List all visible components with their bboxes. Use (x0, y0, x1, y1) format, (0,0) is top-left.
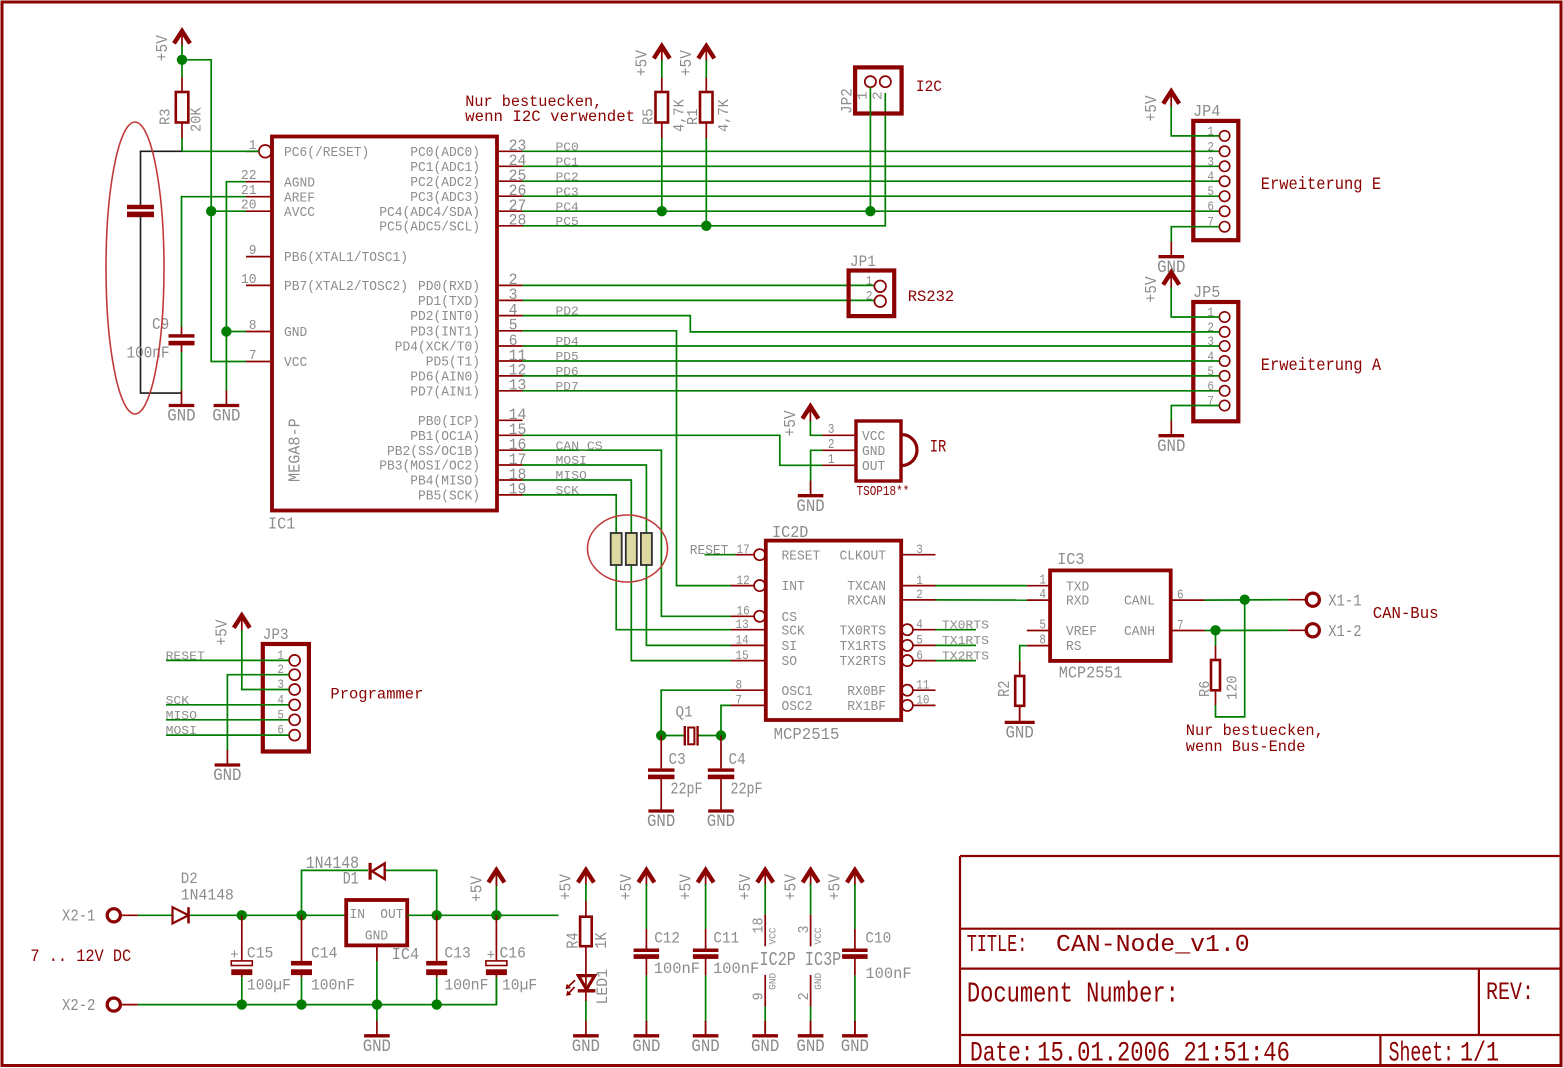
svg-text:Date:: Date: (970, 1039, 1034, 1068)
terminal X1-2 (1288, 623, 1361, 642)
IC3 pin 5 VREF (1027, 618, 1097, 640)
svg-text:GND: GND (862, 445, 885, 460)
svg-text:PC2: PC2 (556, 170, 579, 184)
IC1 pin 10 PB7(XTAL2/TOSC2) (241, 273, 408, 295)
svg-text:Sheet:: Sheet: (1389, 1039, 1454, 1068)
svg-text:22pF: 22pF (671, 780, 703, 799)
wire black loop lower (141, 216, 182, 393)
IC3 pin 1 TXD (1027, 574, 1089, 596)
wire IR GND (811, 450, 823, 491)
ground GND (C12) (632, 1021, 660, 1057)
ground GND (C9) (167, 391, 195, 427)
connector JP5 (Erweiterung A) (1193, 283, 1238, 421)
IC2D pin 1 TXCAN (847, 573, 935, 595)
svg-text:100nF: 100nF (127, 344, 170, 363)
wire PC0 net (523, 150, 1220, 152)
junction AVCC (206, 206, 216, 216)
junction R5 (657, 206, 667, 216)
svg-text:OUT: OUT (862, 460, 885, 475)
wire JP2 pin1 to PC4 (869, 87, 871, 211)
svg-text:4: 4 (916, 617, 923, 632)
wire D1 bypass left (302, 870, 369, 915)
svg-text:GND: GND (796, 1038, 824, 1057)
svg-text:GND: GND (1157, 438, 1185, 457)
wire D2 to IC4 IN rail (190, 914, 346, 916)
svg-text:PC3: PC3 (556, 185, 579, 199)
IC1 pin 14 PB0(ICP) (418, 406, 526, 430)
svg-text:PC5: PC5 (556, 215, 579, 229)
svg-text:MCP2551: MCP2551 (1059, 664, 1123, 683)
svg-text:1: 1 (856, 91, 872, 100)
capacitor C4 (708, 736, 763, 799)
IC1 pin 23 PC0(ADC0) (410, 137, 526, 161)
svg-text:3: 3 (828, 423, 835, 438)
wire RXCAN to RXD (936, 599, 1027, 601)
svg-text:VREF: VREF (1066, 625, 1097, 640)
svg-text:2: 2 (1207, 139, 1214, 154)
supply +5V (JP4) (1142, 91, 1179, 121)
wire LED1 to GND (585, 991, 587, 1001)
supply +5V (IC4 out) (467, 870, 504, 915)
svg-text:OUT: OUT (380, 908, 403, 923)
svg-text:2: 2 (866, 289, 873, 304)
IC2D pin 2 RXCAN (847, 587, 935, 609)
svg-text:GND: GND (572, 1038, 600, 1057)
svg-text:MOSI: MOSI (556, 454, 587, 468)
svg-text:+5V: +5V (1142, 95, 1161, 121)
svg-text:SCK: SCK (556, 484, 580, 498)
IC1 pin 22 AGND (241, 169, 315, 191)
svg-text:1K: 1K (592, 932, 611, 949)
svg-text:4,7K: 4,7K (717, 99, 733, 132)
svg-text:9: 9 (249, 244, 257, 259)
svg-text:PB2(SS/OC1B): PB2(SS/OC1B) (387, 445, 480, 460)
svg-text:GND: GND (796, 498, 824, 517)
ground GND (IC1) (212, 391, 240, 427)
wire JP5 pin7 to GND (1171, 406, 1219, 422)
svg-text:R2: R2 (995, 681, 1014, 697)
wire PD1 to JP1 (523, 299, 875, 301)
terminal X2-1 (62, 908, 138, 927)
svg-text:GND: GND (691, 1038, 719, 1057)
svg-text:1: 1 (866, 274, 873, 289)
svg-text:MISO: MISO (166, 709, 197, 723)
svg-text:PD7: PD7 (556, 380, 579, 394)
svg-text:PB5(SCK): PB5(SCK) (418, 490, 480, 505)
svg-text:PC6(/RESET): PC6(/RESET) (284, 146, 369, 161)
svg-text:PD6: PD6 (556, 365, 579, 379)
svg-text:JP1: JP1 (850, 253, 876, 271)
wire R6 to CANL (1216, 600, 1245, 717)
svg-text:MISO: MISO (556, 469, 587, 483)
IC1 pin 27 PC4(ADC4/SDA) (379, 197, 526, 221)
IC2D pin 8 OSC1 (731, 677, 813, 699)
svg-text:RESET: RESET (690, 544, 729, 559)
svg-text:GND: GND (632, 1038, 660, 1057)
svg-text:20K: 20K (190, 107, 206, 132)
wire PC1 net (523, 165, 1220, 167)
wire +5V to IR VCC (810, 421, 822, 435)
svg-text:TITLE:: TITLE: (967, 932, 1028, 959)
svg-text:+5V: +5V (467, 876, 486, 902)
svg-text:IC3: IC3 (1057, 550, 1084, 569)
svg-text:TSOP18**: TSOP18** (857, 485, 910, 500)
svg-text:8: 8 (736, 677, 743, 692)
wire R1 to bus (705, 138, 707, 226)
svg-text:IC4: IC4 (392, 945, 419, 964)
svg-text:LED1: LED1 (594, 969, 612, 1005)
svg-text:RXCAN: RXCAN (847, 595, 886, 610)
supply +5V (R5) (633, 46, 670, 76)
wire OSC1 to crystal (661, 690, 731, 735)
svg-text:TX1RTS: TX1RTS (840, 640, 887, 655)
wire black reset-cap loop (141, 151, 183, 205)
power symbol IC3P (781, 870, 841, 1036)
resistor R5 4,7K (641, 60, 688, 138)
svg-text:13: 13 (736, 617, 749, 632)
svg-text:IC3P: IC3P (805, 949, 841, 971)
wire TX2RTS stub (936, 660, 977, 662)
svg-text:+5V: +5V (633, 50, 652, 76)
svg-text:I2C: I2C (916, 78, 942, 96)
svg-text:+5V: +5V (557, 874, 576, 900)
IC1 pin 24 PC1(ADC1) (410, 152, 526, 176)
svg-text:R3: R3 (159, 109, 175, 125)
wire PC3 net (523, 195, 1220, 197)
wire PD5 net (523, 360, 1220, 362)
capacitor C11 100nF (693, 884, 759, 978)
svg-text:MOSI: MOSI (166, 724, 197, 738)
wire RESET net label (IC2D) (705, 554, 736, 556)
annotation red ellipse (reset caps) (106, 122, 164, 414)
svg-text:R1: R1 (686, 109, 702, 125)
IC3 pin 4 RXD (1027, 588, 1089, 610)
svg-text:10: 10 (916, 693, 929, 708)
svg-text:+: + (230, 948, 238, 964)
svg-text:PC4: PC4 (556, 200, 579, 214)
svg-text:INT: INT (782, 580, 805, 595)
svg-text:VCC: VCC (284, 356, 307, 371)
svg-text:100nF: 100nF (444, 977, 488, 995)
IC2D pin 16 CS (731, 604, 797, 626)
wire +5V to JP4 pin1 (1171, 106, 1219, 136)
capacitor C9 (127, 315, 195, 363)
svg-text:PD7(AIN1): PD7(AIN1) (410, 385, 480, 400)
IC2D pin 15 SO (731, 648, 797, 670)
svg-text:2: 2 (797, 992, 813, 1000)
svg-text:MEGA8-P: MEGA8-P (286, 418, 305, 482)
wire C10 to GND (854, 975, 856, 1021)
svg-text:120: 120 (1226, 675, 1242, 700)
svg-text:3: 3 (797, 926, 813, 934)
IC3 pin 6 CANL (1124, 589, 1205, 610)
svg-text:PD5(T1): PD5(T1) (426, 356, 480, 371)
svg-text:PC0(ADC0): PC0(ADC0) (410, 146, 480, 161)
svg-text:Programmer: Programmer (330, 685, 423, 703)
svg-text:PC2(ADC2): PC2(ADC2) (410, 176, 480, 191)
wire OSC2 to crystal (721, 705, 731, 735)
svg-text:100µF: 100µF (247, 977, 291, 995)
ground GND (C4) (707, 796, 735, 832)
IC2D pin 5 TX1RTS (840, 633, 936, 655)
svg-text:C16: C16 (500, 945, 526, 963)
ground GND (JP3) (213, 750, 241, 786)
svg-text:11: 11 (916, 677, 929, 692)
svg-text:RS: RS (1066, 640, 1082, 655)
IC IC1 MEGA8-P body (272, 137, 497, 511)
wire MISO to JP3 pin5 (166, 719, 289, 721)
wire JP4 pin7 to GND (1171, 227, 1219, 242)
svg-text:+5V: +5V (153, 35, 172, 61)
svg-text:1/1: 1/1 (1460, 1039, 1499, 1068)
svg-text:2: 2 (916, 587, 923, 602)
capacitor C13 100nF (426, 915, 488, 1004)
svg-text:7 .. 12V DC: 7 .. 12V DC (30, 948, 131, 967)
wire MOSI to JP3 pin6 (166, 734, 289, 736)
LED LED1 (566, 969, 612, 1005)
wire C9 to GND (181, 352, 183, 391)
svg-text:IC1: IC1 (268, 515, 295, 534)
wire X2-1 to D2 (138, 914, 172, 916)
supply +5V (C10) (826, 870, 863, 900)
svg-text:CLKOUT: CLKOUT (840, 549, 887, 564)
svg-text:X2-1: X2-1 (62, 908, 95, 927)
IC IC3 MCP2551 body (1050, 570, 1171, 661)
svg-text:PD4: PD4 (556, 335, 579, 349)
svg-text:MCP2515: MCP2515 (774, 725, 840, 744)
IC1 pin 6 PD4(XCK/T0) (395, 332, 523, 356)
svg-text:REV:: REV: (1486, 978, 1534, 1007)
junction GND pin8 (221, 326, 231, 336)
IR receiver module body (856, 421, 917, 481)
supply +5V (C11) (676, 870, 713, 900)
svg-text:22pF: 22pF (731, 780, 763, 799)
svg-text:14: 14 (736, 633, 749, 648)
svg-text:GND: GND (647, 813, 675, 832)
svg-text:7: 7 (736, 693, 743, 708)
svg-text:PC4(ADC4/SDA): PC4(ADC4/SDA) (379, 206, 480, 221)
svg-text:100nF: 100nF (654, 960, 700, 978)
svg-text:5: 5 (1207, 184, 1214, 199)
svg-text:JP3: JP3 (263, 626, 289, 644)
svg-text:28: 28 (509, 212, 527, 230)
wire D1 bypass right (386, 870, 437, 915)
IC1 pin 3 PD1(TXD) (418, 286, 523, 310)
connector JP4 (Erweiterung E) (1193, 102, 1238, 240)
wire IC4 GND down (376, 945, 378, 961)
svg-text:PD6(AIN0): PD6(AIN0) (410, 371, 480, 386)
IC2D pin 13 SCK (731, 617, 805, 639)
annotation red ellipse (SPI jumpers) (588, 515, 668, 582)
IC2D pin 4 TX0RTS (840, 617, 936, 639)
svg-text:+5V: +5V (781, 874, 800, 900)
title block frame (960, 856, 1560, 1064)
svg-text:SO: SO (782, 655, 798, 670)
svg-text:CANL: CANL (1124, 595, 1155, 610)
ground GND (IR) (796, 481, 824, 517)
svg-text:GND: GND (284, 326, 307, 341)
wire TX0RTS stub (936, 629, 977, 631)
svg-text:PD3(INT1): PD3(INT1) (410, 325, 480, 340)
junction R1 (701, 221, 711, 231)
svg-text:GND: GND (365, 930, 388, 945)
svg-text:wenn I2C verwendet: wenn I2C verwendet (465, 108, 635, 126)
capacitor C15 100uF polarized (230, 915, 291, 1004)
IC2D pin 10 RX1BF (847, 693, 935, 715)
resistor R3 (159, 78, 206, 139)
svg-text:PB0(ICP): PB0(ICP) (418, 415, 480, 430)
IC1 pin 11 PD5(T1) (426, 347, 527, 371)
IC1 pin 21 AREF (241, 184, 315, 206)
ground GND (LED1) (572, 1021, 600, 1057)
IC1 pin 17 PB3(MOSI/OC2) (379, 451, 526, 475)
svg-text:13: 13 (509, 377, 527, 395)
svg-text:D2: D2 (181, 870, 198, 888)
IC1 pin 19 PB5(SCK) (418, 481, 526, 505)
wire R3 to pin1 net (181, 138, 183, 151)
svg-text:Q1: Q1 (676, 704, 693, 722)
svg-text:12: 12 (737, 573, 750, 588)
svg-text:RXD: RXD (1066, 595, 1089, 610)
wire RS to R2 (1020, 646, 1027, 661)
svg-text:PC1(ADC1): PC1(ADC1) (410, 161, 480, 176)
IC2D pin 12 INT (731, 573, 805, 595)
svg-text:C11: C11 (713, 929, 739, 947)
supply +5V (R4/LED1) (557, 870, 594, 900)
IC1 pin 13 PD7(AIN1) (410, 377, 526, 401)
svg-text:6: 6 (916, 648, 923, 663)
svg-text:X1-1: X1-1 (1328, 592, 1361, 611)
svg-text:PC0: PC0 (556, 140, 579, 154)
IC2D pin 3 CLKOUT (840, 542, 936, 564)
svg-text:PD0(RXD): PD0(RXD) (418, 280, 480, 295)
svg-text:GND: GND (767, 973, 779, 990)
svg-text:JP4: JP4 (1193, 102, 1220, 121)
ground GND (IC3P) (796, 1021, 824, 1057)
supply +5V (JP5) (1142, 272, 1179, 302)
IC1 pin 25 PC2(ADC2) (410, 167, 526, 191)
IC1 pin 18 PB4(MISO) (410, 466, 526, 490)
svg-text:R5: R5 (641, 109, 657, 125)
junction CANL/R6 (1240, 595, 1250, 605)
wire +5V branch to AVCC/VCC (182, 60, 246, 362)
wire AREF to C9 (182, 197, 247, 327)
svg-text:PD2: PD2 (556, 305, 579, 319)
svg-text:GND: GND (707, 813, 735, 832)
wire PD6 net (523, 375, 1220, 377)
wire C11 to GND (705, 975, 707, 1021)
svg-text:GND: GND (751, 1038, 779, 1057)
ground GND (R2) (1005, 707, 1035, 743)
svg-text:RS232: RS232 (908, 288, 955, 306)
IC2D pin 7 OSC2 (731, 693, 813, 715)
junction IC4 GND (372, 999, 382, 1009)
svg-text:SCK: SCK (166, 694, 190, 708)
connector JP1 (RS232) (849, 253, 895, 316)
ground GND (JP4) (1157, 242, 1185, 278)
svg-text:CAN-Node_v1.0: CAN-Node_v1.0 (1056, 932, 1250, 959)
svg-text:Erweiterung E: Erweiterung E (1261, 175, 1381, 195)
svg-text:wenn Bus-Ende: wenn Bus-Ende (1186, 738, 1306, 756)
svg-text:TX0RTS: TX0RTS (840, 624, 887, 639)
junction C13 top (432, 910, 442, 920)
wire AGND/GND net (226, 182, 246, 332)
svg-text:100nF: 100nF (311, 977, 355, 995)
svg-text:IC2D: IC2D (772, 523, 808, 542)
svg-text:1: 1 (1039, 574, 1046, 589)
svg-text:15: 15 (736, 648, 749, 663)
svg-text:8: 8 (249, 319, 257, 334)
IC3 pin 8 RS (1027, 633, 1082, 655)
svg-text:R4: R4 (564, 932, 583, 948)
supply +5V (R3) (153, 31, 190, 61)
svg-text:PD1(TXD): PD1(TXD) (418, 295, 480, 310)
svg-text:+5V: +5V (617, 874, 636, 900)
wire RESET to JP3 pin1 (166, 659, 289, 661)
svg-text:GND: GND (1006, 725, 1034, 744)
svg-text:5: 5 (916, 633, 923, 648)
svg-text:4: 4 (1207, 169, 1214, 184)
ground GND (C3) (647, 796, 675, 832)
svg-text:PB3(MOSI/OC2): PB3(MOSI/OC2) (379, 460, 480, 475)
svg-text:C3: C3 (669, 750, 686, 769)
capacitor C3 (648, 736, 703, 799)
svg-text:18: 18 (752, 918, 768, 934)
svg-text:IC2P: IC2P (760, 949, 796, 971)
wire bottom rail X2-2 (138, 977, 497, 1004)
svg-text:4: 4 (1039, 588, 1046, 603)
svg-text:PC5(ADC5/SCL): PC5(ADC5/SCL) (379, 220, 480, 235)
svg-text:10: 10 (241, 273, 257, 288)
svg-text:+5V: +5V (826, 874, 845, 900)
wire +5V to R3 and branch (181, 45, 183, 78)
wire IC4 OUT rail (407, 914, 558, 916)
svg-text:TX2RTS: TX2RTS (840, 655, 887, 670)
wire CANH to X1-2 (1205, 629, 1289, 631)
svg-text:9: 9 (752, 992, 768, 1000)
svg-text:OSC2: OSC2 (782, 700, 813, 715)
svg-text:OSC1: OSC1 (782, 685, 813, 700)
svg-text:100nF: 100nF (713, 960, 759, 978)
wire TX1RTS stub (936, 644, 977, 646)
junction +5V/R3 (177, 55, 187, 65)
IC1 pin 26 PC3(ADC3) (410, 182, 526, 206)
IC1 pin 28 PC5(ADC5/SCL) (379, 212, 526, 236)
svg-text:10µF: 10µF (502, 977, 537, 995)
svg-text:6: 6 (1177, 589, 1184, 604)
IC1 pin 8 GND (246, 319, 307, 341)
supply +5V (C12) (617, 870, 654, 900)
wire PC4 net (SDA) (523, 210, 1220, 212)
svg-text:AVCC: AVCC (284, 206, 315, 221)
IC1 pin 9 PB6(XTAL1/TOSC1) (246, 244, 408, 266)
IC IC2D MCP2515 body (766, 541, 901, 720)
diode D2 1N4148 (173, 870, 234, 924)
wire R5 to bus (661, 138, 663, 211)
IC1 pin 16 PB2(SS/OC1B) (387, 436, 526, 460)
svg-text:AGND: AGND (284, 176, 315, 191)
svg-text:+5V: +5V (1142, 276, 1161, 302)
svg-text:X1-2: X1-2 (1328, 623, 1361, 642)
wire PD0 to JP1 (523, 284, 875, 286)
wire C12 to GND (645, 975, 647, 1021)
svg-text:+5V: +5V (213, 619, 232, 645)
supply +5V (IR) (781, 406, 818, 436)
supply +5V (JP3) (213, 615, 250, 645)
junction CANH/R6 (1210, 625, 1220, 635)
svg-text:1: 1 (916, 573, 923, 588)
resistor R1 4,7K (686, 60, 733, 138)
